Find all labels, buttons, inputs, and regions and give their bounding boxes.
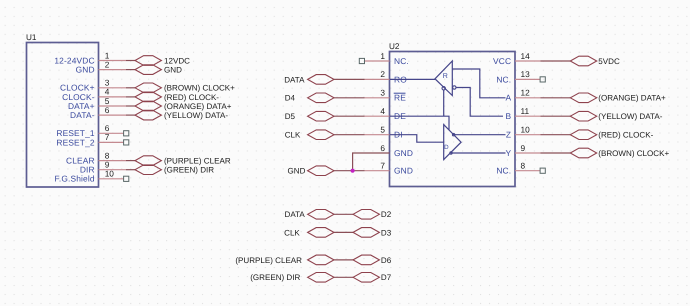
svg-text:(ORANGE) DATA+: (ORANGE) DATA+ bbox=[164, 102, 232, 111]
svg-text:F.G.Shield: F.G.Shield bbox=[55, 174, 95, 184]
svg-text:(ORANGE) DATA+: (ORANGE) DATA+ bbox=[598, 94, 666, 103]
global label (ORANGE) DATA+ bbox=[135, 101, 232, 111]
global label (GREEN) DIR bbox=[135, 165, 214, 175]
driver D triangle bbox=[444, 125, 461, 160]
svg-text:8: 8 bbox=[521, 161, 526, 171]
U2 pin 13 NC. (right) bbox=[496, 69, 530, 84]
receiver enable bubble bbox=[442, 87, 445, 90]
global label CLK bbox=[285, 130, 334, 140]
svg-text:D7: D7 bbox=[381, 273, 392, 282]
U2 pin 14 VCC (right) bbox=[493, 51, 530, 66]
svg-text:GND: GND bbox=[394, 148, 413, 158]
U2 pin 7 GND (left) bbox=[380, 161, 413, 176]
global label GND bbox=[135, 65, 182, 75]
U1 pin 6 RESET_1 bbox=[56, 123, 128, 138]
svg-text:14: 14 bbox=[521, 51, 531, 61]
svg-text:RE: RE bbox=[394, 93, 406, 103]
RO line bbox=[390, 78, 436, 80]
svg-text:D2: D2 bbox=[381, 210, 392, 219]
global label D2 bbox=[353, 210, 392, 220]
svg-text:Z: Z bbox=[506, 130, 511, 140]
wire bbox=[334, 134, 390, 136]
U2 pin 4 DE (left) bbox=[380, 106, 406, 121]
svg-text:4: 4 bbox=[380, 106, 385, 116]
svg-text:12: 12 bbox=[521, 88, 531, 98]
no-connect stub bbox=[515, 77, 545, 82]
wire bbox=[334, 213, 353, 215]
svg-text:DATA: DATA bbox=[285, 210, 306, 219]
svg-text:DATA: DATA bbox=[284, 75, 305, 84]
global label (YELLOW) DATA- bbox=[570, 111, 662, 121]
global label (PURPLE) CLEAR bbox=[235, 255, 334, 265]
svg-text:D3: D3 bbox=[381, 228, 392, 237]
svg-text:(GREEN) DIR: (GREEN) DIR bbox=[164, 166, 214, 175]
svg-text:(BROWN) CLOCK+: (BROWN) CLOCK+ bbox=[164, 84, 235, 93]
U1 pin 10 F.G.Shield bbox=[55, 169, 129, 184]
svg-text:(YELLOW) DATA-: (YELLOW) DATA- bbox=[164, 111, 228, 120]
svg-text:CLK: CLK bbox=[284, 228, 300, 237]
global label D5 bbox=[285, 111, 334, 121]
svg-text:12VDC: 12VDC bbox=[164, 56, 190, 65]
global label (RED) CLOCK- bbox=[570, 130, 653, 140]
svg-text:7: 7 bbox=[380, 161, 385, 171]
global label 12VDC bbox=[135, 56, 190, 66]
IC U2 bbox=[389, 42, 515, 187]
U2 pin 3 RE (left) bbox=[380, 88, 406, 103]
receiver R triangle bbox=[435, 61, 452, 96]
wire bbox=[334, 97, 390, 99]
DI line bbox=[390, 135, 444, 143]
U2 pin 12 A (right) bbox=[505, 88, 530, 103]
global label D6 bbox=[353, 255, 392, 265]
svg-text:GND: GND bbox=[394, 166, 413, 176]
svg-text:(RED) CLOCK-: (RED) CLOCK- bbox=[598, 131, 653, 140]
global label (YELLOW) DATA- bbox=[135, 110, 228, 120]
global label (PURPLE) CLEAR bbox=[135, 156, 231, 166]
global label DATA bbox=[284, 75, 334, 85]
wire bbox=[334, 259, 353, 261]
Z line bbox=[452, 134, 454, 136]
global label DATA bbox=[285, 210, 334, 220]
svg-text:(YELLOW) DATA-: (YELLOW) DATA- bbox=[598, 112, 662, 121]
no-connect stub bbox=[515, 168, 545, 173]
svg-text:GND: GND bbox=[288, 167, 306, 176]
svg-text:10: 10 bbox=[521, 125, 531, 135]
U1 pin 2 GND bbox=[76, 59, 135, 74]
U2 pin 1 NC. (left) bbox=[380, 51, 409, 66]
wire bbox=[515, 152, 570, 154]
wire bbox=[515, 60, 570, 62]
svg-text:RESET_2: RESET_2 bbox=[56, 137, 94, 147]
svg-text:U2: U2 bbox=[389, 42, 400, 51]
svg-text:A: A bbox=[505, 93, 511, 103]
U1 pin 8 CLEAR bbox=[66, 150, 135, 165]
global label GND bbox=[288, 166, 334, 176]
global label D7 bbox=[353, 273, 392, 283]
U1 pin 5 DATA+ bbox=[68, 96, 135, 111]
svg-text:2: 2 bbox=[105, 59, 110, 69]
U1 pin 7 RESET_2 bbox=[56, 132, 128, 147]
U2 pin 10 Z (right) bbox=[506, 125, 530, 140]
svg-text:NC.: NC. bbox=[394, 56, 409, 66]
svg-text:3: 3 bbox=[380, 88, 385, 98]
svg-text:9: 9 bbox=[521, 143, 526, 153]
svg-text:7: 7 bbox=[105, 132, 110, 142]
global label (BROWN) CLOCK+ bbox=[135, 83, 235, 93]
svg-text:1: 1 bbox=[380, 51, 385, 61]
svg-text:2: 2 bbox=[380, 69, 385, 79]
wire bbox=[515, 134, 570, 136]
svg-text:CLK: CLK bbox=[285, 131, 301, 140]
global label (BROWN) CLOCK+ bbox=[570, 148, 669, 158]
wire bbox=[334, 115, 390, 117]
svg-text:NC.: NC. bbox=[496, 166, 511, 176]
U2 pin 1 no-connect stub bbox=[359, 58, 389, 63]
U2 pin 9 Y (right) bbox=[505, 143, 525, 158]
svg-text:B: B bbox=[505, 111, 511, 121]
wire bbox=[515, 97, 570, 99]
U2 pin 2 RO (left) bbox=[380, 69, 407, 84]
svg-text:5: 5 bbox=[380, 125, 385, 135]
svg-text:Y: Y bbox=[505, 148, 511, 158]
U1 pin 9 DIR bbox=[80, 160, 135, 175]
svg-text:6: 6 bbox=[380, 143, 385, 153]
svg-text:6: 6 bbox=[105, 105, 110, 115]
U1 pin 1 12-24VDC bbox=[54, 50, 135, 65]
svg-text:(PURPLE) CLEAR: (PURPLE) CLEAR bbox=[235, 256, 302, 265]
svg-text:5VDC: 5VDC bbox=[598, 57, 620, 66]
svg-text:GND: GND bbox=[76, 65, 95, 75]
U1 pin 3 CLOCK+ bbox=[60, 78, 135, 93]
svg-text:DATA-: DATA- bbox=[70, 110, 95, 120]
wire bbox=[334, 78, 390, 80]
Y line bbox=[450, 152, 452, 154]
U2 pin 8 NC. (right) bbox=[496, 161, 525, 176]
global label CLK bbox=[284, 228, 334, 238]
U1 pin 4 CLOCK- bbox=[62, 87, 135, 102]
svg-text:(GREEN) DIR: (GREEN) DIR bbox=[250, 273, 300, 282]
wire GND to pin7 bbox=[334, 170, 390, 172]
svg-text:10: 10 bbox=[105, 169, 115, 179]
DE line to driver bbox=[390, 116, 450, 130]
svg-text:13: 13 bbox=[521, 69, 531, 79]
receiver output to A bbox=[452, 69, 505, 98]
svg-text:VCC: VCC bbox=[493, 56, 511, 66]
svg-text:11: 11 bbox=[521, 106, 530, 116]
svg-text:NC.: NC. bbox=[496, 74, 511, 84]
global label D3 bbox=[353, 228, 392, 238]
svg-text:(BROWN) CLOCK+: (BROWN) CLOCK+ bbox=[598, 149, 669, 158]
global label D4 bbox=[285, 93, 334, 103]
global label (GREEN) DIR bbox=[250, 273, 334, 283]
svg-text:(RED) CLOCK-: (RED) CLOCK- bbox=[164, 93, 219, 102]
connector U1 bbox=[26, 33, 99, 187]
wire pin6 elbow to GND net bbox=[353, 153, 390, 171]
junction bbox=[351, 169, 355, 173]
svg-text:U1: U1 bbox=[26, 33, 37, 42]
svg-text:D: D bbox=[444, 144, 449, 151]
svg-text:(PURPLE) CLEAR: (PURPLE) CLEAR bbox=[164, 157, 231, 166]
wire bbox=[334, 276, 353, 278]
svg-text:D6: D6 bbox=[381, 256, 392, 265]
U2 pin 6 GND (left) bbox=[380, 143, 413, 158]
U2 pin 11 B (right) bbox=[505, 106, 529, 121]
wire bbox=[515, 115, 570, 117]
global label 5VDC bbox=[570, 56, 620, 66]
bubble to B line bbox=[453, 86, 456, 89]
svg-text:GND: GND bbox=[164, 66, 182, 75]
global label (ORANGE) DATA+ bbox=[570, 93, 666, 103]
svg-text:D5: D5 bbox=[285, 112, 296, 121]
global label (RED) CLOCK- bbox=[135, 92, 219, 102]
enable vertical bbox=[443, 90, 445, 116]
wire bbox=[334, 231, 353, 233]
U2 pin 5 DI (left) bbox=[380, 125, 402, 140]
svg-text:D4: D4 bbox=[285, 94, 296, 103]
svg-text:R: R bbox=[443, 73, 448, 80]
U1 pin 6 DATA- bbox=[70, 105, 135, 120]
